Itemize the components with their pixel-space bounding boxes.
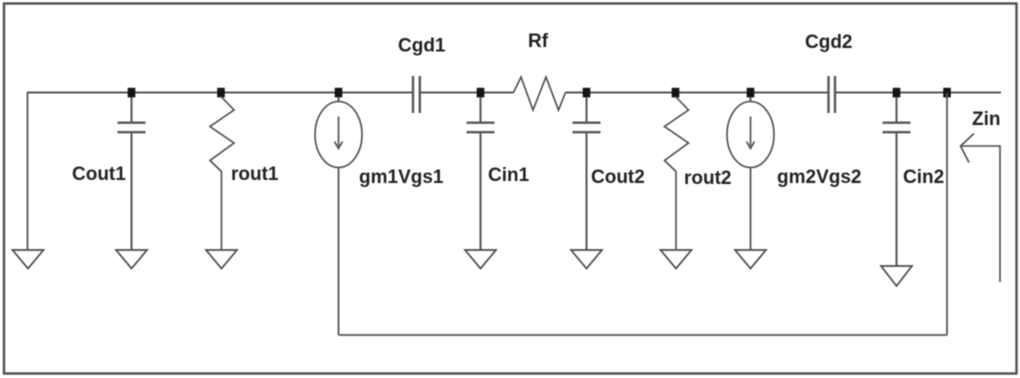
node Cout1 junction — [128, 88, 136, 98]
resistor Rf — [514, 77, 566, 110]
node gm2 junction — [747, 88, 755, 98]
capacitor Cgd2 — [829, 76, 836, 113]
ground left rail — [13, 250, 44, 269]
svg-text:Cout2: Cout2 — [591, 167, 645, 188]
svg-text:gm1Vgs1: gm1Vgs1 — [359, 167, 444, 188]
wire top rail far-right segment — [836, 92, 1002, 94]
node Cout2 junction — [583, 88, 591, 98]
node gm1 junction — [335, 88, 343, 98]
capacitor Cout2 — [573, 97, 601, 250]
wire top rail left segment — [27, 92, 412, 94]
svg-text:Cin2: Cin2 — [903, 167, 944, 188]
capacitor Cin2 — [883, 97, 911, 266]
node rout2 junction — [672, 88, 680, 98]
node Cin1 junction — [477, 88, 485, 98]
wire left ground drop — [27, 93, 29, 251]
ground rout2 — [661, 250, 692, 269]
wire bottom rail — [339, 334, 948, 336]
current source gm1Vgs1 — [315, 97, 362, 168]
ground Cout1 — [116, 250, 147, 269]
capacitor Cout1 — [118, 97, 146, 250]
wire right drop to bottom rail — [946, 93, 948, 335]
ground Cin1 — [465, 250, 496, 269]
ground rout1 — [206, 250, 237, 269]
wire gm2 to ground — [750, 168, 752, 251]
node rout1 junction — [217, 88, 225, 98]
capacitor Cin1 — [467, 97, 495, 250]
current source gm2Vgs2 — [727, 97, 774, 168]
svg-text:Cin1: Cin1 — [488, 165, 530, 186]
svg-text:Cgd2: Cgd2 — [805, 32, 853, 53]
resistor rout2 — [665, 97, 689, 251]
svg-text:Zin: Zin — [972, 109, 1001, 130]
ground Cout2 — [571, 250, 602, 269]
svg-text:rout1: rout1 — [231, 164, 279, 185]
wire gm1 to bottom rail — [338, 168, 340, 336]
svg-text:Cout1: Cout1 — [72, 164, 126, 185]
resistor rout1 — [210, 97, 234, 251]
wire top rail middle segment — [421, 92, 514, 94]
ground gm2Vgs2 — [735, 250, 766, 269]
ground Cin2 — [881, 266, 912, 286]
wire top rail right segment — [566, 92, 828, 94]
node Zin junction — [943, 88, 951, 98]
Zin probe arrow — [961, 134, 1001, 283]
svg-text:gm2Vgs2: gm2Vgs2 — [777, 167, 861, 188]
svg-text:rout2: rout2 — [684, 168, 732, 189]
capacitor Cgd1 — [413, 76, 420, 113]
svg-text:Cgd1: Cgd1 — [398, 36, 446, 57]
node Cin2 junction — [893, 88, 901, 98]
svg-text:Rf: Rf — [528, 31, 549, 52]
